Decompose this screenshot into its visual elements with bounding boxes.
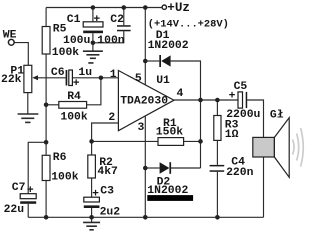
- svg-text:100u: 100u: [63, 35, 91, 47]
- svg-text:C7: C7: [12, 182, 26, 194]
- svg-text:WE: WE: [3, 29, 17, 41]
- svg-text:TDA2030: TDA2030: [120, 96, 168, 108]
- svg-text:R4: R4: [67, 91, 81, 103]
- svg-text:100k: 100k: [60, 112, 88, 124]
- svg-text:1: 1: [110, 69, 117, 81]
- svg-text:220n: 220n: [226, 167, 254, 179]
- svg-text:R5: R5: [53, 24, 67, 36]
- svg-text:1Ω: 1Ω: [225, 129, 239, 141]
- svg-text:C6: C6: [51, 67, 65, 79]
- svg-text:100k: 100k: [51, 172, 79, 184]
- svg-text:2: 2: [108, 112, 115, 124]
- svg-text:1N2002: 1N2002: [147, 185, 188, 197]
- svg-text:2200u: 2200u: [226, 109, 260, 121]
- svg-text:4k7: 4k7: [97, 166, 118, 178]
- svg-text:C2: C2: [110, 14, 124, 26]
- svg-text:+: +: [93, 14, 100, 26]
- svg-text:2u2: 2u2: [100, 206, 121, 218]
- svg-text:4: 4: [177, 88, 184, 100]
- svg-text:22k: 22k: [1, 74, 22, 86]
- svg-text:R6: R6: [53, 152, 67, 164]
- svg-text:Gł: Gł: [270, 110, 284, 122]
- svg-text:+: +: [27, 185, 34, 197]
- svg-text:+: +: [92, 188, 99, 200]
- svg-text:150k: 150k: [156, 127, 184, 139]
- svg-text:(+14V...+28V): (+14V...+28V): [148, 19, 229, 31]
- svg-text:C1: C1: [67, 14, 81, 26]
- svg-text:1u: 1u: [78, 67, 92, 79]
- svg-text:C5: C5: [234, 81, 248, 93]
- svg-text:3: 3: [138, 122, 145, 134]
- svg-text:+: +: [229, 90, 236, 102]
- svg-text:U1: U1: [156, 75, 170, 87]
- svg-text:5: 5: [135, 73, 142, 85]
- svg-text:+Uz: +Uz: [167, 1, 190, 15]
- svg-text:100n: 100n: [97, 35, 125, 47]
- svg-text:+: +: [73, 78, 80, 90]
- svg-text:22u: 22u: [4, 204, 25, 216]
- svg-text:1N2002: 1N2002: [148, 40, 189, 52]
- svg-text:C3: C3: [100, 185, 114, 197]
- svg-text:100k: 100k: [52, 47, 80, 59]
